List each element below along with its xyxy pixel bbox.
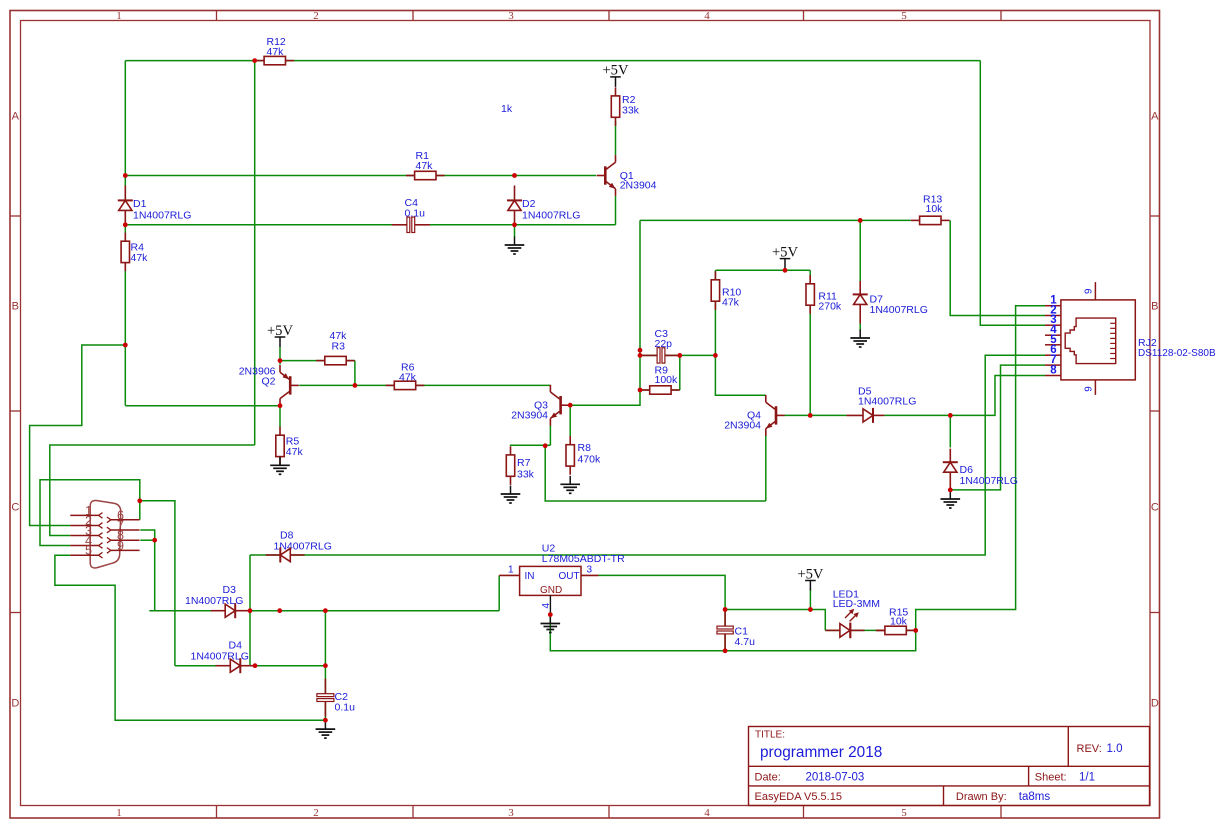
capacitor C2 bbox=[316, 679, 334, 717]
svg-text:47k: 47k bbox=[722, 296, 740, 308]
wire y=445 row to pin3 column bbox=[50, 445, 255, 536]
svg-text:2018-07-03: 2018-07-03 bbox=[806, 772, 865, 784]
ground at R7 bbox=[501, 486, 521, 504]
RJ2 pin 9 bottom bbox=[1083, 380, 1095, 395]
junction R9 left bbox=[638, 388, 643, 393]
resistor R15 bbox=[876, 607, 915, 635]
ground at D7 bbox=[850, 330, 870, 348]
svg-text:1N4007RLG: 1N4007RLG bbox=[858, 396, 916, 408]
wire +5V stub R10/R11 bbox=[784, 268, 786, 270]
ground at C2 bbox=[316, 721, 336, 739]
transistor Q2 bbox=[280, 365, 299, 406]
svg-text:B: B bbox=[1151, 301, 1158, 313]
junction C4 row / D1 bottom bbox=[123, 222, 128, 227]
svg-text:9: 9 bbox=[1083, 289, 1094, 294]
wire D7 top bbox=[859, 220, 861, 281]
wire R3 row bbox=[280, 360, 355, 362]
svg-text:4.7u: 4.7u bbox=[735, 636, 756, 648]
resistor R5 bbox=[276, 427, 304, 466]
wire D6 top bbox=[949, 415, 951, 447]
wire Q4 base to R11/D5 junction bbox=[784, 414, 846, 416]
junction R1 row / D2 top bbox=[512, 173, 517, 178]
svg-text:D: D bbox=[11, 698, 19, 710]
svg-text:5: 5 bbox=[901, 807, 907, 819]
junction R15 right bbox=[913, 628, 918, 633]
svg-text:A: A bbox=[12, 111, 20, 123]
wire Q2 +5V stub bbox=[279, 347, 281, 365]
svg-text:2N3904: 2N3904 bbox=[511, 410, 548, 422]
resistor R8 bbox=[566, 436, 601, 475]
svg-text:B: B bbox=[12, 301, 19, 313]
wire Q3 base down to R8 bbox=[569, 405, 571, 436]
RJ2 pin 9 top bbox=[1083, 282, 1095, 300]
wire D6 bottom row to pin7 column bbox=[950, 365, 1045, 490]
junction C3 left bbox=[638, 353, 643, 358]
svg-text:Date:: Date: bbox=[755, 772, 781, 784]
junction D4 row / C2 column bbox=[323, 663, 328, 668]
svg-text:33k: 33k bbox=[517, 469, 535, 481]
svg-text:47k: 47k bbox=[267, 46, 285, 58]
capacitor C1 bbox=[716, 611, 733, 649]
power +5V at Q2 bbox=[267, 323, 294, 347]
wire top rail net R12 bbox=[125, 60, 980, 62]
wire U2 pin3 to C1 top bbox=[599, 575, 726, 609]
svg-text:22p: 22p bbox=[655, 338, 673, 350]
svg-text:3: 3 bbox=[508, 10, 514, 22]
junction Q3 base / R8 bbox=[568, 403, 573, 408]
svg-text:3: 3 bbox=[587, 565, 593, 576]
DB9 pin 9 bbox=[107, 539, 140, 553]
diode D6 bbox=[943, 449, 1018, 490]
svg-text:2: 2 bbox=[313, 10, 319, 22]
wire R11 top leg bbox=[809, 270, 811, 283]
junction C4 row / D2 bottom bbox=[512, 222, 517, 227]
diode D1 bbox=[118, 186, 192, 226]
wire left vertical D1/R4 column bbox=[124, 61, 126, 406]
junction DB9 pin7/pin8 bbox=[152, 538, 157, 543]
resistor R1 bbox=[406, 150, 445, 180]
svg-text:10k: 10k bbox=[890, 616, 908, 628]
wire R10 top leg bbox=[714, 270, 716, 280]
title block bbox=[749, 727, 1150, 806]
transistor Q3 bbox=[550, 385, 569, 426]
svg-text:9: 9 bbox=[1083, 386, 1094, 391]
junction D3 row / D8 column bbox=[248, 608, 253, 613]
connector DB9 body bbox=[90, 500, 121, 567]
svg-text:1/1: 1/1 bbox=[1079, 772, 1095, 784]
ground at R5 bbox=[270, 457, 290, 475]
svg-text:3: 3 bbox=[508, 807, 514, 819]
svg-text:5: 5 bbox=[901, 10, 907, 22]
wire DB9 pin4-pin6 loop bbox=[40, 480, 140, 546]
wire R13 row bbox=[640, 219, 911, 221]
wire R10 bottom to Q4 collector bbox=[715, 301, 765, 395]
junction +5V row R10/R11 bbox=[783, 268, 788, 273]
svg-text:4: 4 bbox=[704, 10, 710, 22]
wire Q2 collector row to left column bbox=[125, 405, 280, 407]
svg-text:1: 1 bbox=[508, 565, 514, 576]
junction C3 row / R10 column bbox=[713, 353, 718, 358]
svg-text:47k: 47k bbox=[416, 160, 434, 172]
svg-text:C: C bbox=[1151, 502, 1159, 514]
svg-text:47k: 47k bbox=[399, 371, 417, 383]
transistor Q1 bbox=[597, 155, 616, 196]
svg-text:5: 5 bbox=[85, 544, 92, 558]
wire Q2 collector to R5 bbox=[279, 406, 281, 427]
resistor R12 bbox=[256, 36, 295, 65]
wire C3 row bbox=[640, 354, 715, 356]
wire U2 pin1 drop bbox=[498, 575, 500, 610]
wire x=254.7 vertical (R12 left to DB9 pin3 link) bbox=[254, 61, 256, 445]
wire Q1 emitter drop bbox=[615, 196, 617, 225]
junction D3 row mid bbox=[277, 608, 282, 613]
svg-text:4: 4 bbox=[541, 603, 552, 609]
resistor R9 bbox=[641, 365, 680, 395]
svg-text:2N3904: 2N3904 bbox=[620, 180, 657, 192]
wire Q4 emitter drop bbox=[765, 435, 767, 501]
junction D3 row / C2 column bbox=[323, 608, 328, 613]
DB9 pin 6 bbox=[107, 508, 140, 522]
junction R7 row / y501 column bbox=[543, 443, 548, 448]
resistor R10 bbox=[711, 271, 741, 310]
svg-text:470k: 470k bbox=[578, 454, 602, 466]
wire D7 bottom to ground bbox=[859, 324, 861, 331]
svg-text:33k: 33k bbox=[622, 105, 640, 117]
svg-text:LED-3MM: LED-3MM bbox=[833, 598, 880, 610]
svg-text:1N4007RLG: 1N4007RLG bbox=[870, 304, 928, 316]
RJ2 pin 4 bbox=[1045, 324, 1061, 336]
wire R15 right to RJ2 pin1 bbox=[916, 306, 1045, 631]
wire C2 column bbox=[324, 611, 326, 721]
wire RJ2 pin6 to D8 row bbox=[250, 355, 1045, 555]
wire Q2 base / R6 row to Q3 collector bbox=[299, 384, 550, 386]
svg-text:0.1u: 0.1u bbox=[405, 208, 426, 220]
svg-text:GND: GND bbox=[540, 585, 562, 596]
svg-text:0.1u: 0.1u bbox=[335, 702, 356, 714]
svg-text:1N4007RLG: 1N4007RLG bbox=[133, 209, 191, 221]
junction top rail / R12 left bbox=[252, 58, 257, 63]
svg-text:D2: D2 bbox=[522, 198, 536, 210]
RJ2 pin 6 bbox=[1045, 344, 1061, 356]
DB9 pin 2 bbox=[70, 514, 102, 528]
svg-text:IN: IN bbox=[525, 571, 535, 582]
svg-text:programmer 2018: programmer 2018 bbox=[760, 744, 882, 761]
wire D4 row bbox=[175, 665, 326, 667]
connector RJ2 jack drawing bbox=[1065, 318, 1116, 364]
wire +5V row R10/R11 bbox=[715, 269, 810, 271]
wire RJ2 pin3 from top rail bbox=[980, 61, 1045, 326]
svg-text:9: 9 bbox=[117, 539, 124, 553]
diode D2 bbox=[507, 186, 580, 226]
svg-text:R3: R3 bbox=[332, 341, 346, 353]
wire C4 row bbox=[125, 224, 615, 226]
wire y=501 row bbox=[545, 446, 766, 501]
capacitor C4 bbox=[392, 217, 430, 233]
svg-text:Drawn By:: Drawn By: bbox=[956, 791, 1007, 803]
junction C3 right / R9 leg bbox=[677, 353, 682, 358]
svg-text:Q2: Q2 bbox=[261, 376, 275, 388]
svg-text:DS1128-02-S80B: DS1128-02-S80B bbox=[1138, 348, 1216, 359]
junction D6 bottom / pin7 row bbox=[948, 488, 953, 493]
svg-text:8: 8 bbox=[1050, 365, 1057, 377]
svg-text:270k: 270k bbox=[818, 300, 842, 312]
resistor R11 bbox=[806, 275, 842, 314]
svg-text:Sheet:: Sheet: bbox=[1035, 772, 1067, 784]
junction left column pin2 link bbox=[123, 343, 128, 348]
wire D8 left leg down to D3 row bbox=[249, 555, 251, 666]
junction R1 row / D1 top bbox=[123, 173, 128, 178]
wire R9 row bbox=[640, 389, 680, 391]
DB9 pin 3 bbox=[70, 524, 102, 538]
junction D4 row bbox=[253, 663, 258, 668]
wire C1 column bbox=[724, 610, 726, 651]
diode D3 bbox=[211, 603, 250, 618]
junction +5V LED rail bbox=[808, 607, 813, 612]
junction C1 top bbox=[723, 607, 728, 612]
svg-text:47k: 47k bbox=[286, 446, 304, 458]
regulator U2 bbox=[499, 566, 598, 614]
junction Q2 collector / R5 bbox=[278, 403, 283, 408]
wire R7 top row to Q3 emitter bbox=[510, 444, 551, 446]
svg-text:100k: 100k bbox=[655, 374, 679, 386]
ground at R8 bbox=[560, 476, 580, 494]
wire D5 cathode to pin8 column bbox=[884, 376, 1045, 416]
junction C1 bottom bbox=[723, 648, 728, 653]
DB9 pin 4 bbox=[70, 534, 102, 548]
wire bottom rail U2 gnd to R15 bbox=[550, 615, 915, 651]
diode D5 bbox=[846, 408, 884, 423]
svg-text:1N4007RLG: 1N4007RLG bbox=[522, 209, 580, 221]
junction U2 gnd bbox=[548, 612, 553, 617]
RJ2 pin 8 bbox=[1045, 365, 1061, 377]
power +5V at LED rail bbox=[797, 566, 824, 590]
svg-text:1.0: 1.0 bbox=[1107, 743, 1123, 755]
wire DB9 pin6 branch to D4 row bbox=[140, 501, 175, 666]
wire +5V stub LED rail bbox=[809, 590, 811, 610]
wire DB9 pin5 to ground rail bbox=[55, 555, 326, 720]
svg-text:2: 2 bbox=[313, 807, 319, 819]
wire R2 bottom to Q1 collector bbox=[615, 121, 617, 155]
RJ2 pin 5 bbox=[1045, 334, 1061, 346]
svg-text:D: D bbox=[1151, 698, 1159, 710]
wire pin2 link from D1/R4 column bbox=[30, 345, 126, 526]
svg-text:L78M05ABDT-TR: L78M05ABDT-TR bbox=[542, 553, 625, 565]
power +5V at R2 bbox=[602, 63, 629, 87]
wire Q3 base row to C3/R9 column bbox=[560, 220, 640, 405]
svg-text:A: A bbox=[1151, 111, 1159, 123]
DB9 pin 1 bbox=[70, 504, 102, 518]
resistor R6 bbox=[386, 362, 425, 390]
junction Q2 emitter +5V bbox=[278, 358, 283, 363]
transistor Q4 bbox=[766, 395, 785, 436]
wire R13 right to RJ2 pin2 bbox=[950, 220, 1045, 315]
svg-text:R7: R7 bbox=[517, 457, 531, 469]
svg-text:1N4007RLG: 1N4007RLG bbox=[960, 475, 1018, 487]
wire C3/R9 right leg bbox=[679, 355, 681, 390]
wire DB9 pin8 link bbox=[140, 539, 154, 541]
svg-text:D1: D1 bbox=[133, 198, 147, 210]
svg-text:2N3904: 2N3904 bbox=[724, 420, 761, 432]
resistor R7 bbox=[506, 446, 534, 485]
resistor R13 bbox=[911, 194, 950, 225]
power +5V at R10/R11 bbox=[772, 244, 799, 268]
svg-text:EasyEDA V5.5.15: EasyEDA V5.5.15 bbox=[755, 791, 842, 803]
junction DB9 pin6 branch bbox=[137, 498, 142, 503]
resistor R3 bbox=[316, 330, 355, 365]
DB9 pin 5 bbox=[70, 544, 102, 558]
wire D2 bottom to ground bbox=[514, 225, 516, 237]
diode D4 bbox=[216, 658, 255, 673]
svg-text:1N4007RLG: 1N4007RLG bbox=[274, 541, 332, 553]
wire LED/R15 row bbox=[825, 629, 915, 631]
svg-text:1: 1 bbox=[116, 807, 122, 819]
diode D7 bbox=[853, 281, 928, 324]
resistor R4 bbox=[121, 233, 148, 272]
wire Q3 emitter drop bbox=[549, 425, 551, 445]
connector RJ2 box bbox=[1061, 300, 1135, 380]
RJ2 pin 3 bbox=[1045, 314, 1061, 326]
diode D8 bbox=[266, 548, 305, 563]
junction Q4 base / R11 bbox=[808, 413, 813, 418]
DB9 pin 8 bbox=[107, 529, 140, 543]
svg-text:10k: 10k bbox=[926, 203, 944, 215]
wire D3 row bbox=[149, 610, 499, 612]
junction C2 bottom / ground rail bbox=[323, 718, 328, 723]
RJ2 pin 1 bbox=[1045, 295, 1061, 307]
wire C1 top row to LED column bbox=[725, 610, 825, 631]
svg-text:ta8ms: ta8ms bbox=[1019, 791, 1051, 803]
ground at D6 bbox=[941, 491, 961, 509]
wire R3 right leg bbox=[354, 361, 356, 386]
svg-text:47k: 47k bbox=[131, 252, 149, 264]
svg-text:R8: R8 bbox=[578, 442, 592, 454]
RJ2 pin 7 bbox=[1045, 354, 1061, 366]
junction R3 right / base row bbox=[353, 383, 358, 388]
wire DB9 pins7+8 column bbox=[140, 530, 154, 611]
wire R1 row bbox=[125, 175, 596, 177]
junction C3 left upper bbox=[638, 348, 643, 353]
svg-text:4: 4 bbox=[704, 807, 710, 819]
svg-text:OUT: OUT bbox=[559, 571, 580, 582]
svg-text:1: 1 bbox=[116, 10, 122, 22]
svg-text:TITLE:: TITLE: bbox=[755, 730, 785, 741]
svg-text:C: C bbox=[11, 502, 19, 514]
junction R13 row / D7 bbox=[858, 218, 863, 223]
RJ2 pin 2 bbox=[1045, 305, 1061, 317]
resistor R2 bbox=[611, 87, 639, 126]
ground at U2 bbox=[541, 615, 561, 633]
wire R11 bottom to Q4 base row bbox=[809, 306, 811, 415]
LED LED1 bbox=[825, 609, 885, 638]
ground at D2 bbox=[505, 237, 525, 255]
junction D5 cathode / D6 bbox=[948, 413, 953, 418]
DB9 pin 7 bbox=[107, 519, 140, 533]
svg-text:1k: 1k bbox=[501, 103, 513, 115]
svg-text:REV:: REV: bbox=[1077, 743, 1102, 755]
capacitor C3 bbox=[641, 347, 682, 363]
